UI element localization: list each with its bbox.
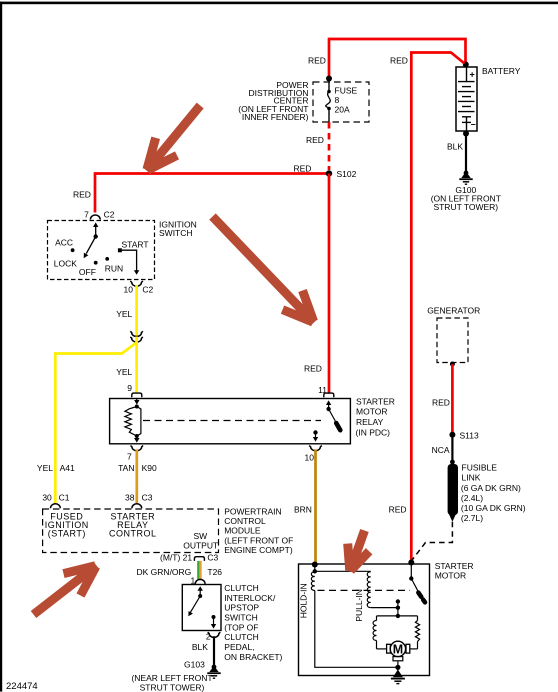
svg-text:BRN: BRN [294, 505, 312, 515]
svg-text:INNER FENDER): INNER FENDER) [242, 112, 309, 122]
svg-text:10: 10 [124, 284, 134, 294]
svg-text:S113: S113 [460, 430, 479, 440]
svg-text:2: 2 [206, 631, 211, 641]
wire YEL ignition to splice [135, 285, 138, 336]
svg-text:POWERTRAIN: POWERTRAIN [224, 507, 281, 517]
motor M [390, 641, 405, 656]
svg-text:LINK: LINK [462, 473, 481, 483]
svg-text:G103: G103 [184, 660, 205, 670]
wire START contact to pin 10 [122, 250, 137, 271]
svg-text:RELAY: RELAY [356, 417, 384, 427]
svg-text:YEL: YEL [116, 367, 132, 377]
svg-text:M: M [393, 642, 403, 656]
wire fusible link to starter (dashed) [411, 522, 452, 561]
node fusible link top [450, 460, 455, 465]
svg-text:10: 10 [305, 453, 315, 463]
ground G103 [212, 665, 217, 670]
svg-text:STRUT TOWER): STRUT TOWER) [140, 683, 205, 692]
wire RED fuse to battery [329, 39, 466, 80]
wire RED generator to S113 [451, 364, 454, 433]
svg-text:ENGINE COMPT): ENGINE COMPT) [224, 545, 293, 555]
pin 10 connector C2 [130, 281, 143, 286]
svg-text:38: 38 [125, 493, 135, 503]
svg-text:RED: RED [294, 164, 312, 174]
pin 2 connector [208, 632, 221, 637]
pin 1 connector [195, 579, 205, 584]
wire BLK clutch switch to G103 [213, 636, 215, 666]
svg-text:A41: A41 [60, 463, 75, 473]
svg-text:RED: RED [306, 135, 324, 145]
svg-text:UPSTOP: UPSTOP [224, 603, 259, 613]
svg-text:MOTOR: MOTOR [435, 571, 466, 581]
pin 30 connector C1 [51, 504, 61, 509]
svg-text:(LEFT FRONT OF: (LEFT FRONT OF [224, 535, 293, 545]
svg-text:224474: 224474 [6, 681, 38, 692]
wire RED fused output (dashed) [328, 122, 331, 170]
svg-text:C2: C2 [104, 209, 115, 219]
pin 11 connector [324, 393, 334, 397]
node battery negative [463, 131, 469, 137]
motor base [393, 657, 403, 661]
node S113 [449, 432, 455, 438]
relay pin 10 contact [313, 430, 317, 434]
power distribution center box [313, 82, 369, 122]
svg-text:T26: T26 [207, 567, 222, 577]
svg-text:GENERATOR: GENERATOR [427, 306, 480, 316]
pin 21 connector C3 [194, 557, 204, 561]
wire pull-in to contact [371, 607, 396, 609]
svg-text:(START): (START) [48, 528, 86, 538]
svg-text:BLK: BLK [192, 642, 208, 652]
svg-text:11: 11 [318, 385, 327, 395]
hold-in coil [314, 565, 316, 572]
svg-text:ON BRACKET): ON BRACKET) [224, 652, 282, 662]
pin 10 connector [309, 446, 322, 451]
svg-text:OUTPUT: OUTPUT [183, 541, 218, 551]
powertrain control module box [43, 509, 219, 553]
starter motor relay box [110, 399, 351, 444]
svg-text:CLUTCH: CLUTCH [224, 583, 258, 593]
svg-text:MOTOR: MOTOR [356, 407, 387, 417]
svg-text:RED: RED [389, 505, 407, 515]
svg-text:C3: C3 [207, 553, 218, 563]
svg-text:LOCK: LOCK [54, 258, 77, 268]
callout arrow 4 [350, 531, 365, 572]
svg-text:SWITCH: SWITCH [159, 228, 193, 238]
wire RED S102 to relay pin 11 [328, 174, 331, 394]
starter solenoid switch [410, 563, 412, 579]
ground G100 [464, 171, 469, 176]
svg-text:(2.7L): (2.7L) [461, 513, 483, 523]
node battery positive junction [463, 62, 469, 68]
in-line connector [130, 331, 143, 336]
svg-text:(IN PDC): (IN PDC) [356, 427, 391, 437]
svg-text:7: 7 [84, 209, 89, 219]
svg-text:C1: C1 [59, 493, 70, 503]
fuse 8 (20A) [328, 82, 330, 90]
svg-text:(10 GA DK GRN): (10 GA DK GRN) [461, 503, 526, 513]
svg-text:BATTERY: BATTERY [482, 66, 521, 76]
svg-text:20A: 20A [335, 105, 350, 115]
svg-text:INTERLOCK/: INTERLOCK/ [224, 593, 276, 603]
node RUN [105, 257, 109, 261]
svg-text:CONTROL: CONTROL [109, 528, 157, 538]
svg-text:(TOP OF: (TOP OF [224, 622, 258, 632]
wire pull-in branch [315, 570, 371, 572]
pin 38 connector C3 [132, 504, 142, 509]
node hold-in junction [313, 569, 317, 573]
pin 9 connector [132, 393, 142, 397]
wire RED battery to starter feed [411, 53, 464, 563]
svg-text:C3: C3 [142, 493, 153, 503]
node starter battery terminal [408, 560, 414, 566]
wire YEL branch to PCM pin 30 [55, 343, 136, 504]
clutch switch pin 2 contact [212, 615, 216, 619]
wire BRN relay to starter [314, 449, 317, 563]
wire YEL to relay pin 9 [135, 337, 138, 394]
wire hold-in to ground bus [315, 591, 396, 668]
svg-text:RED: RED [304, 364, 322, 374]
svg-text:START: START [122, 240, 149, 250]
svg-text:BLK: BLK [447, 142, 463, 152]
starter contact chain [397, 602, 399, 616]
svg-text:–: – [471, 119, 476, 129]
starter ground [393, 670, 403, 678]
svg-text:PULL-IN: PULL-IN [354, 589, 364, 622]
wire NCA S113 to fusible link [451, 435, 453, 463]
wire RED to ignition switch [95, 174, 329, 213]
clutch interlock/upstop switch box [182, 585, 221, 631]
battery [456, 67, 477, 131]
ignition switch box [48, 221, 155, 280]
svg-text:TAN: TAN [118, 463, 134, 473]
svg-text:30: 30 [42, 493, 52, 503]
svg-text:MODULE: MODULE [224, 526, 261, 536]
svg-text:STARTER: STARTER [435, 561, 474, 571]
svg-text:(6 GA DK GRN): (6 GA DK GRN) [461, 483, 521, 493]
svg-text:PEDAL,: PEDAL, [224, 642, 254, 652]
clutch switch contact [198, 586, 203, 591]
svg-text:K90: K90 [142, 463, 157, 473]
svg-text:CLUTCH: CLUTCH [224, 632, 258, 642]
svg-text:SW: SW [193, 531, 207, 541]
svg-text:FUSE: FUSE [335, 86, 358, 96]
generator box [437, 318, 468, 363]
svg-text:S102: S102 [337, 169, 357, 179]
svg-text:DK GRN/ORG: DK GRN/ORG [137, 567, 192, 577]
pin 7 connector C2 [90, 215, 100, 220]
svg-text:RED: RED [308, 56, 326, 66]
callout arrow 3 [34, 566, 97, 615]
node generator output [450, 362, 455, 367]
svg-text:RED: RED [390, 56, 408, 66]
pull-in coil [367, 572, 370, 608]
wire TAN relay to PCM [135, 449, 138, 503]
svg-text:FUSIBLE: FUSIBLE [462, 463, 498, 473]
starter dashed link [318, 589, 411, 591]
wire DK GRN/ORG [197, 561, 199, 579]
ignition switch wiper [95, 226, 97, 237]
svg-text:ACC: ACC [55, 237, 73, 247]
svg-text:NCA: NCA [432, 445, 450, 455]
svg-text:STRUT TOWER): STRUT TOWER) [433, 202, 498, 212]
node fuse top junction [326, 76, 332, 82]
node S102 [326, 170, 332, 176]
fusible link [448, 464, 458, 515]
motor loop top [377, 615, 418, 617]
callout arrow 1 [147, 106, 201, 171]
svg-text:YEL: YEL [37, 463, 53, 473]
pin 7 connector [131, 446, 144, 451]
svg-text:7: 7 [127, 452, 132, 462]
node ACC [71, 248, 75, 252]
relay coil [136, 399, 138, 401]
svg-text:(M/T) 21: (M/T) 21 [160, 553, 192, 563]
motor field coil right [417, 616, 419, 621]
svg-text:8: 8 [335, 95, 340, 105]
svg-text:HOLD-IN: HOLD-IN [298, 583, 308, 618]
motor field coil left [376, 616, 378, 621]
svg-text:(2.4L): (2.4L) [461, 493, 483, 503]
node OFF [94, 261, 98, 265]
svg-text:+: + [470, 70, 475, 80]
relay actuation dashed link [143, 420, 321, 422]
wire motor to ground [397, 661, 399, 672]
svg-text:YEL: YEL [116, 309, 132, 319]
wire BLK battery to G100 [465, 133, 467, 172]
node START [118, 248, 122, 252]
svg-text:SWITCH: SWITCH [224, 612, 258, 622]
starter motor box [299, 564, 430, 676]
node starter BRN terminal [312, 562, 318, 568]
svg-text:RED: RED [73, 190, 91, 200]
svg-text:OFF: OFF [79, 267, 96, 277]
motor brushes [387, 644, 391, 653]
svg-text:STARTER: STARTER [356, 396, 395, 406]
callout arrow 2 [213, 217, 315, 323]
svg-text:CONTROL: CONTROL [224, 516, 266, 526]
svg-text:C2: C2 [142, 284, 153, 294]
relay switch [326, 400, 331, 405]
svg-text:RUN: RUN [105, 263, 123, 273]
svg-text:RED: RED [432, 398, 450, 408]
svg-text:9: 9 [127, 383, 132, 393]
